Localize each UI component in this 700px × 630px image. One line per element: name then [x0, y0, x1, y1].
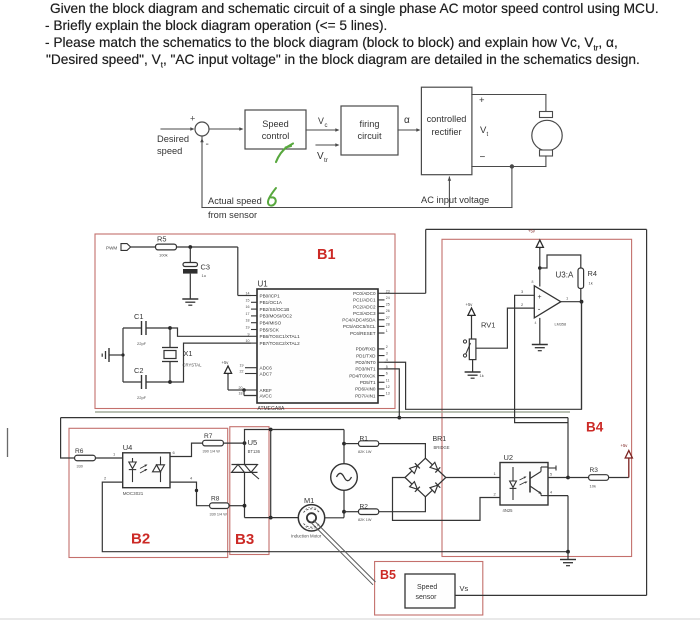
- svg-text:Actual speed: Actual speed: [208, 196, 262, 206]
- svg-text:t: t: [487, 132, 489, 138]
- svg-text:LM358: LM358: [555, 323, 567, 327]
- svg-text:330: 330: [77, 465, 83, 469]
- svg-text:1: 1: [113, 452, 116, 457]
- svg-text:PD0/RXD: PD0/RXD: [356, 347, 377, 352]
- svg-text:8: 8: [532, 280, 534, 284]
- svg-text:2: 2: [521, 302, 524, 307]
- svg-text:R7: R7: [204, 433, 213, 440]
- svg-text:+: +: [538, 294, 542, 301]
- svg-text:ADC7: ADC7: [260, 371, 273, 376]
- svg-text:ATMEGA8A: ATMEGA8A: [258, 406, 286, 412]
- svg-text:22pF: 22pF: [137, 395, 147, 400]
- svg-text:U4: U4: [123, 443, 133, 452]
- svg-text:22: 22: [240, 370, 244, 374]
- svg-text:12: 12: [386, 385, 390, 389]
- svg-text:B2: B2: [131, 531, 150, 548]
- svg-text:ADC6: ADC6: [260, 366, 273, 371]
- svg-text:+5v: +5v: [528, 229, 536, 234]
- svg-text:19: 19: [240, 364, 244, 368]
- svg-text:25: 25: [386, 303, 390, 307]
- svg-text:B1: B1: [317, 247, 336, 263]
- svg-text:-: -: [206, 139, 209, 150]
- svg-text:22pF: 22pF: [137, 341, 147, 346]
- svg-text:U1: U1: [258, 280, 269, 289]
- svg-text:PD6/AIN0: PD6/AIN0: [355, 387, 376, 392]
- svg-text:C1: C1: [134, 312, 143, 321]
- svg-text:PB1/OC1A: PB1/OC1A: [260, 300, 283, 305]
- svg-text:1k: 1k: [589, 281, 593, 286]
- svg-text:U3:A: U3:A: [556, 271, 574, 280]
- svg-text:26: 26: [386, 309, 390, 313]
- svg-text:M1: M1: [304, 496, 314, 505]
- svg-text:PC1/ADC1: PC1/ADC1: [353, 298, 376, 303]
- svg-text:1: 1: [566, 296, 569, 301]
- svg-text:from sensor: from sensor: [208, 210, 257, 220]
- svg-text:16: 16: [246, 305, 250, 309]
- svg-text:390 1/4 W: 390 1/4 W: [203, 450, 221, 454]
- svg-text:82K 1W: 82K 1W: [358, 450, 372, 454]
- svg-text:4: 4: [535, 321, 537, 325]
- svg-text:BT136: BT136: [248, 449, 261, 454]
- svg-text:1u: 1u: [202, 273, 206, 278]
- svg-text:RV1: RV1: [481, 321, 495, 330]
- svg-text:B5: B5: [380, 568, 396, 582]
- svg-text:AVCC: AVCC: [260, 393, 273, 398]
- svg-text:AREF: AREF: [260, 388, 272, 393]
- svg-text:speed: speed: [157, 146, 182, 156]
- svg-text:19: 19: [246, 326, 250, 330]
- svg-text:24: 24: [386, 296, 390, 300]
- svg-text:PB2/SS/OC1B: PB2/SS/OC1B: [260, 307, 290, 312]
- svg-text:PD7/AIN1: PD7/AIN1: [355, 393, 376, 398]
- svg-text:c: c: [325, 123, 328, 129]
- svg-text:17: 17: [246, 312, 250, 316]
- svg-text:11: 11: [386, 378, 390, 382]
- svg-text:PD2/INT0: PD2/INT0: [355, 360, 376, 365]
- svg-text:3: 3: [386, 352, 388, 356]
- svg-text:firing: firing: [360, 119, 380, 129]
- svg-text:R2: R2: [360, 504, 369, 511]
- svg-text:−: −: [480, 152, 486, 163]
- svg-text:circuit: circuit: [358, 131, 382, 141]
- svg-text:R1: R1: [360, 436, 369, 443]
- svg-text:B4: B4: [586, 420, 604, 435]
- svg-text:PC6/RESET: PC6/RESET: [350, 331, 376, 336]
- svg-text:controlled: controlled: [427, 114, 467, 124]
- svg-text:Vs: Vs: [460, 584, 469, 593]
- svg-text:Speed: Speed: [417, 584, 437, 591]
- svg-text:PC0/ADC0: PC0/ADC0: [353, 291, 376, 296]
- svg-text:2: 2: [104, 476, 107, 481]
- svg-text:PB6/TOSC1/XTAL1: PB6/TOSC1/XTAL1: [260, 334, 301, 339]
- svg-text:R4: R4: [588, 269, 597, 278]
- svg-text:PC3/ADC3: PC3/ADC3: [353, 311, 376, 316]
- svg-text:+: +: [479, 95, 485, 106]
- svg-text:27: 27: [386, 316, 390, 320]
- svg-text:BR1: BR1: [433, 436, 447, 443]
- svg-text:R6: R6: [75, 448, 84, 455]
- svg-text:R8: R8: [211, 496, 220, 503]
- svg-text:4: 4: [550, 491, 552, 495]
- svg-text:1: 1: [494, 471, 497, 476]
- svg-text:100k: 100k: [159, 253, 168, 258]
- svg-text:PC4/ADC4/SDA: PC4/ADC4/SDA: [342, 318, 376, 323]
- svg-text:2: 2: [494, 492, 497, 497]
- svg-text:sensor: sensor: [416, 594, 438, 601]
- svg-text:14: 14: [246, 292, 250, 296]
- svg-text:PD5/T1: PD5/T1: [360, 380, 376, 385]
- svg-text:Induction Motor: Induction Motor: [291, 534, 322, 539]
- svg-text:6: 6: [173, 450, 176, 455]
- svg-text:18: 18: [239, 392, 243, 396]
- svg-text:PB5/SCK: PB5/SCK: [260, 327, 280, 332]
- svg-text:PB3/MOSI/OC2: PB3/MOSI/OC2: [260, 314, 293, 319]
- svg-text:5: 5: [550, 473, 552, 477]
- svg-text:PWM: PWM: [106, 246, 117, 251]
- svg-text:control: control: [262, 131, 290, 141]
- svg-text:R5: R5: [157, 235, 166, 244]
- svg-text:CRYSTAL: CRYSTAL: [183, 363, 203, 368]
- svg-text:82K 1W: 82K 1W: [358, 518, 372, 522]
- svg-text:13: 13: [386, 392, 390, 396]
- svg-text:tr: tr: [324, 157, 329, 164]
- svg-text:+5v: +5v: [621, 443, 629, 448]
- svg-text:V: V: [317, 151, 324, 162]
- svg-text:rectifier: rectifier: [431, 127, 461, 137]
- svg-text:+5v: +5v: [466, 302, 474, 307]
- svg-text:C3: C3: [201, 263, 210, 272]
- svg-text:U2: U2: [504, 453, 514, 462]
- svg-text:B3: B3: [235, 531, 254, 548]
- svg-text:R3: R3: [590, 467, 599, 474]
- svg-text:2: 2: [386, 345, 388, 349]
- svg-text:V: V: [318, 116, 324, 126]
- svg-text:Speed: Speed: [262, 119, 289, 129]
- svg-text:PC5/ADC5/SCL: PC5/ADC5/SCL: [343, 324, 376, 329]
- svg-text:PD4/T0/XCK: PD4/T0/XCK: [349, 373, 376, 378]
- svg-text:C2: C2: [134, 366, 143, 375]
- svg-text:+: +: [190, 114, 195, 124]
- svg-text:X1: X1: [184, 349, 193, 358]
- svg-text:28: 28: [386, 322, 390, 326]
- svg-text:6: 6: [386, 372, 388, 376]
- svg-text:-: -: [538, 305, 541, 314]
- svg-text:4N25: 4N25: [503, 508, 514, 513]
- svg-text:3: 3: [521, 289, 524, 294]
- svg-text:U5: U5: [248, 438, 258, 447]
- svg-text:330 1/4 W: 330 1/4 W: [210, 513, 228, 517]
- svg-text:+5v: +5v: [222, 360, 230, 365]
- svg-text:PC2/ADC2: PC2/ADC2: [353, 304, 376, 309]
- svg-text:15: 15: [246, 298, 250, 302]
- svg-text:MOC3021: MOC3021: [123, 491, 144, 496]
- svg-text:BRIDGE: BRIDGE: [434, 445, 450, 450]
- svg-text:1: 1: [386, 329, 388, 333]
- svg-text:18: 18: [246, 319, 250, 323]
- svg-text:PD3/INT1: PD3/INT1: [355, 367, 376, 372]
- svg-text:PB0/ICP1: PB0/ICP1: [260, 293, 281, 298]
- svg-text:Desired: Desired: [157, 134, 189, 144]
- svg-text:AC input voltage: AC input voltage: [421, 195, 489, 205]
- svg-text:PD1/TXD: PD1/TXD: [356, 353, 376, 358]
- svg-text:PB4/MISO: PB4/MISO: [260, 321, 282, 326]
- svg-text:PB7/TOSC2/XTAL2: PB7/TOSC2/XTAL2: [260, 341, 301, 346]
- svg-text:α: α: [404, 115, 410, 126]
- svg-text:10k: 10k: [590, 484, 596, 489]
- svg-text:4: 4: [190, 476, 193, 481]
- svg-text:1k: 1k: [480, 373, 484, 378]
